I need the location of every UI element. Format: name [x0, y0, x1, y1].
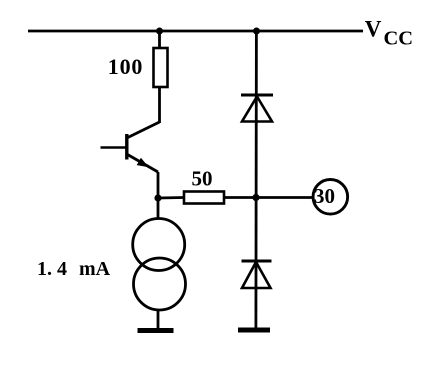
- svg-text:50: 50: [192, 167, 213, 191]
- svg-text:V: V: [365, 17, 382, 42]
- svg-text:mA: mA: [79, 258, 111, 280]
- svg-text:1. 4: 1. 4: [37, 258, 67, 280]
- svg-text:30: 30: [314, 184, 335, 208]
- svg-text:100: 100: [108, 54, 143, 79]
- svg-text:CC: CC: [384, 28, 414, 50]
